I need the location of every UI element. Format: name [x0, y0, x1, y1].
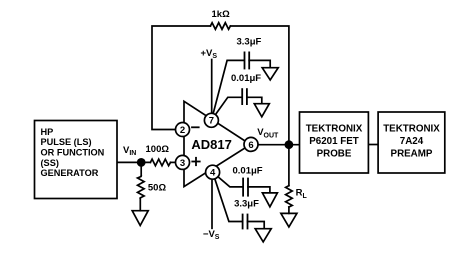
- node VIN junction dot: [137, 158, 146, 167]
- svg-text:2: 2: [180, 125, 185, 136]
- wire +VS supply stub to pin 7: [211, 60, 213, 118]
- resistor R 1kOhm zigzag: [210, 23, 230, 30]
- svg-text:3.3μF: 3.3μF: [237, 37, 262, 48]
- svg-text:PREAMP: PREAMP: [391, 149, 433, 160]
- op-amp pin 4 circle: [206, 165, 220, 179]
- wire pin 4 to 0.01uF bottom (diagonal + lead): [213, 172, 243, 187]
- minus sign at inverting input: [192, 126, 199, 128]
- svg-text:TEKTRONIX: TEKTRONIX: [306, 124, 363, 135]
- wire pin 4 to -VS stub: [211, 174, 213, 228]
- op-amp U1 AD817 triangle: [184, 101, 251, 186]
- svg-text:TEKTRONIX: TEKTRONIX: [383, 124, 440, 135]
- capacitor 3.3uF top plates: [245, 52, 250, 68]
- wire between probe box and preamp box: [368, 144, 378, 146]
- wire 3.3uF bottom to ground: [248, 222, 265, 229]
- wire VOUT node down to RL: [288, 145, 290, 186]
- wire 0.01uF top to ground: [247, 97, 262, 103]
- svg-text:(SS): (SS): [41, 158, 59, 168]
- wire 0.01uF bottom to ground: [248, 187, 270, 193]
- svg-text:100Ω: 100Ω: [146, 144, 170, 155]
- resistor R 50Ohm zigzag: [138, 176, 145, 199]
- svg-text:P6201 FET: P6201 FET: [309, 136, 359, 147]
- node VOUT junction dot: [285, 140, 294, 149]
- preamp box TEKTRONIX 7A24: [378, 112, 445, 173]
- svg-text:AD817: AD817: [191, 137, 231, 152]
- wire output pin 6 to probe box: [258, 144, 300, 146]
- svg-text:1kΩ: 1kΩ: [212, 9, 231, 20]
- probe box TEKTRONIX P6201: [300, 112, 369, 173]
- capacitor 3.3uF bottom plates: [243, 215, 248, 229]
- wire 50 ohm to ground: [139, 198, 141, 211]
- svg-text:3: 3: [180, 158, 185, 169]
- wire pin 7 to 0.01uF bypass (diagonal + lead): [211, 97, 241, 120]
- svg-text:HP: HP: [41, 127, 54, 137]
- capacitor 0.01uF bottom plates: [243, 179, 248, 196]
- wire VIN node down to 50 ohm: [140, 162, 142, 175]
- op-amp pin 3 circle: [176, 155, 190, 169]
- op-amp pin 2 circle: [176, 123, 190, 137]
- capacitor 0.01uF top plates: [242, 89, 247, 104]
- svg-text:4: 4: [210, 168, 216, 179]
- wire pin 4 to 3.3uF bottom (diagonal + lead): [213, 172, 243, 221]
- svg-text:0.01μF: 0.01μF: [231, 73, 261, 84]
- resistor R 100Ohm zigzag: [150, 159, 170, 166]
- op-amp pin 7 circle: [204, 113, 218, 127]
- svg-text:3.3μF: 3.3μF: [234, 199, 259, 210]
- wire pin 7 to 3.3uF bypass (diagonal + lead): [211, 60, 243, 120]
- ground for 0.01uF top: [254, 104, 269, 117]
- svg-text:50Ω: 50Ω: [148, 183, 167, 194]
- plus sign at non-inverting input: [192, 158, 199, 165]
- svg-text:0.01μF: 0.01μF: [233, 166, 263, 177]
- wire RL to ground: [288, 207, 290, 213]
- ground for 0.01uF bottom: [262, 193, 277, 207]
- resistor RL zigzag: [286, 186, 293, 207]
- wire input from generator to 100 ohm: [117, 161, 150, 163]
- svg-text:GENERATOR: GENERATOR: [41, 168, 99, 178]
- ground below RL: [281, 213, 297, 227]
- svg-text:7A24: 7A24: [400, 136, 424, 147]
- wire 100 ohm to pin 3: [171, 161, 177, 163]
- wire 3.3uF top to ground: [249, 60, 270, 67]
- svg-text:7: 7: [209, 116, 214, 127]
- svg-text:6: 6: [248, 140, 253, 151]
- svg-text:OR FUNCTION: OR FUNCTION: [41, 148, 105, 158]
- svg-text:PROBE: PROBE: [317, 149, 352, 160]
- ground below 50 ohm: [132, 211, 148, 226]
- op-amp pin 6 circle: [244, 137, 258, 151]
- ground for 3.3uF top: [262, 68, 278, 80]
- svg-text:PULSE (LS): PULSE (LS): [41, 137, 92, 147]
- wire feedback top right segment: [230, 26, 289, 145]
- generator box HP: [35, 121, 118, 199]
- wire feedback top left segment: [152, 26, 210, 130]
- ground for 3.3uF bottom: [255, 229, 271, 242]
